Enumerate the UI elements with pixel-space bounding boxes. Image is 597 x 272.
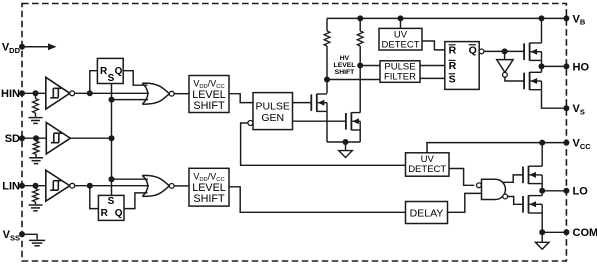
svg-text:DETECT: DETECT xyxy=(382,39,420,50)
node LIN/R latch xyxy=(87,183,93,189)
svg-text:PULSE: PULSE xyxy=(255,101,289,113)
resistor HIN pulldown xyxy=(33,99,39,114)
pin VB xyxy=(563,15,569,21)
svg-text:COM: COM xyxy=(573,227,597,239)
wire G3 to M3 gate xyxy=(503,175,524,182)
wire level shift to pulse gen xyxy=(229,94,253,103)
wire to R2 xyxy=(35,138,37,141)
wire G3 to M4 gate xyxy=(508,197,523,205)
wire SD buffer out xyxy=(70,137,111,139)
wire Q2 drain to pulse filter xyxy=(360,65,380,67)
block UV detect (low side) xyxy=(406,153,450,176)
ground LIN xyxy=(29,204,43,206)
pin HIN xyxy=(19,90,25,96)
wire pulse gen to Q1 gate xyxy=(293,102,312,104)
block UV detect (high side) xyxy=(379,28,422,50)
node Q2 drain tap xyxy=(357,63,363,69)
transistor M4 (LO pulldown) xyxy=(522,196,524,213)
wire to inverter xyxy=(504,51,506,59)
wire R3 to ground xyxy=(35,202,37,204)
block VDD/VCC level shift (low side) xyxy=(189,168,229,206)
wire SD to buffer xyxy=(22,137,46,139)
svg-text:R: R xyxy=(101,208,109,219)
nor gate G2 (low side) xyxy=(142,175,169,196)
resistor SD pulldown xyxy=(33,141,39,154)
wire VB rail xyxy=(327,17,566,19)
wire VDD arrow xyxy=(22,46,50,48)
wire pulse filter to latch R2 xyxy=(420,65,445,67)
wire pulse gen to Q2 gate xyxy=(293,120,347,122)
node VB/R5 xyxy=(357,15,363,21)
pin SD xyxy=(19,135,25,141)
wire LIN buffer out xyxy=(75,185,149,187)
svg-text:LO: LO xyxy=(573,186,589,198)
node Q1 drain tap xyxy=(324,77,330,83)
node LO xyxy=(539,188,545,194)
ground HV level shift (COM triangle) xyxy=(339,151,353,158)
block pulse generator xyxy=(253,93,293,130)
latch U2 (S R Q) xyxy=(98,195,124,220)
pin COM xyxy=(563,229,569,235)
wire Q1 drain to pulse filter xyxy=(327,79,380,81)
svg-text:LIN: LIN xyxy=(2,181,20,193)
wire HIN to buffer xyxy=(22,92,46,94)
wire COM to ground xyxy=(541,232,543,242)
wire M3 source to LO xyxy=(541,184,543,191)
transistor Q1 (HV level shift) xyxy=(310,94,312,111)
wire SD net vertical xyxy=(111,84,113,196)
pin VS xyxy=(563,105,569,111)
wire to HV ground xyxy=(345,142,347,151)
svg-text:Q: Q xyxy=(115,66,123,77)
wire LO xyxy=(542,190,566,192)
node HV sources xyxy=(343,139,349,145)
wire Q2 source xyxy=(359,130,361,142)
nor gate G1 (high side) xyxy=(142,83,169,104)
resistor LIN pulldown xyxy=(33,189,39,202)
wire HO xyxy=(542,65,567,67)
wire VB to UV detect 1 xyxy=(400,18,402,28)
wire latch2 Q to NOR2 xyxy=(124,193,148,209)
wire SD to NOR1 input xyxy=(112,99,149,101)
ground VSS xyxy=(29,239,45,241)
transistor Q2 (HV level shift) xyxy=(345,113,347,130)
wire M1 drain to VB xyxy=(541,18,543,43)
svg-text:DELAY: DELAY xyxy=(410,207,444,219)
wire VCC rail xyxy=(427,143,566,153)
node Qbar/inverter xyxy=(502,48,508,54)
wire M2 drain to HO xyxy=(541,66,543,72)
svg-text:R: R xyxy=(449,60,457,72)
svg-text:S: S xyxy=(449,74,456,86)
svg-text:LEVEL: LEVEL xyxy=(192,89,226,101)
ground HIN xyxy=(29,117,43,119)
node VCC/M3 xyxy=(539,140,545,146)
ground SD xyxy=(29,157,43,159)
node SD buffer out xyxy=(109,135,115,141)
pin LO xyxy=(563,188,569,194)
schmitt buffer SD xyxy=(46,123,70,154)
wire to latch2 R xyxy=(90,186,99,209)
block delay xyxy=(406,202,448,224)
svg-text:GEN: GEN xyxy=(261,112,284,124)
schmitt buffer LIN xyxy=(46,170,70,201)
wire LIN to buffer xyxy=(22,185,46,187)
svg-text:R: R xyxy=(449,45,457,57)
svg-text:LEVEL: LEVEL xyxy=(192,182,226,194)
svg-text:FILTER: FILTER xyxy=(384,72,416,83)
wire UV1 to latch R xyxy=(422,41,445,50)
svg-text:SHIFT: SHIFT xyxy=(335,69,355,76)
svg-text:DETECT: DETECT xyxy=(408,164,446,175)
node COM xyxy=(539,229,545,235)
pin VDD xyxy=(19,44,25,50)
ground COM triangle xyxy=(535,242,549,249)
wire M4 drain to LO xyxy=(541,191,543,196)
wire M4 source to COM xyxy=(541,213,543,232)
wire to latch1 R xyxy=(90,71,98,94)
block VDD/VCC level shift (high side) xyxy=(189,76,229,113)
node SD pulldown xyxy=(33,135,39,141)
wire G1 out xyxy=(174,93,189,95)
svg-text:LEVEL: LEVEL xyxy=(334,62,356,69)
wire to R3 xyxy=(35,186,37,189)
wire UV2 to AND gate xyxy=(449,169,474,186)
G3 inverted input bubble xyxy=(477,183,482,188)
wire R5 to Q2 drain xyxy=(359,46,361,113)
svg-text:SHIFT: SHIFT xyxy=(193,100,225,112)
wire inverter to M2 gate xyxy=(505,77,524,81)
pin HO xyxy=(563,63,569,69)
latch U3 (RRS Qbar) xyxy=(445,42,479,90)
svg-text:SHIFT: SHIFT xyxy=(193,193,225,205)
wire latch1 Q to NOR1 xyxy=(123,71,147,86)
wire level shift 2 to delay xyxy=(229,187,406,213)
node SD to NOR2 xyxy=(109,176,115,182)
svg-text:HIN: HIN xyxy=(1,88,20,100)
wire M2 source to VS xyxy=(542,90,567,109)
node SD to NOR1 xyxy=(109,97,115,103)
wire HIN buffer out xyxy=(75,92,149,94)
pin LIN xyxy=(19,183,25,189)
transistor M2 (HO pulldown) xyxy=(523,73,525,90)
node HO xyxy=(539,63,545,69)
node LIN pulldown xyxy=(33,183,39,189)
svg-text:Q: Q xyxy=(115,208,123,219)
transistor M3 (LO pullup) xyxy=(522,167,524,184)
and gate G3 (low side driver) xyxy=(482,179,506,199)
wire M3 drain to VCC xyxy=(541,143,543,167)
wire M1 source to HO xyxy=(541,60,543,66)
wire feedback from UV detect 2 xyxy=(241,123,406,165)
wire SD to NOR2 input xyxy=(112,178,149,180)
node VB/UV1 xyxy=(398,15,404,21)
wire pulse filter to latch S xyxy=(420,77,445,79)
inverter U4 xyxy=(497,60,513,73)
wire R1 to ground xyxy=(35,113,37,117)
wire VB to R4 xyxy=(326,18,328,31)
latch U1 (R S Q) xyxy=(97,58,123,83)
wire VB to R5 xyxy=(359,18,361,31)
wire to R1 xyxy=(35,93,37,98)
wire R4 to Q1 drain xyxy=(326,46,328,93)
svg-text:HO: HO xyxy=(573,61,590,73)
node VB/M1 xyxy=(539,15,545,21)
wire delay to AND gate xyxy=(448,193,482,212)
wire COM xyxy=(542,231,566,233)
schmitt buffer HIN xyxy=(46,77,70,109)
node HIN pulldown xyxy=(33,90,39,96)
node HIN/R latch xyxy=(87,90,93,96)
wire VSS to ground xyxy=(22,234,37,239)
wire G2 out xyxy=(174,185,189,187)
pin VSS xyxy=(19,231,25,237)
transistor M1 (HO pullup) xyxy=(523,43,525,60)
svg-text:S: S xyxy=(108,73,115,84)
resistor R5 (HV pullup B) xyxy=(357,31,363,46)
wire R2 to ground xyxy=(35,154,37,157)
wire Q1 source xyxy=(326,111,328,142)
pulse gen feedback input bubble xyxy=(248,121,253,126)
wire HV source rail xyxy=(327,141,360,143)
wire Qbar to M1 gate xyxy=(484,50,524,52)
svg-text:Q: Q xyxy=(469,45,477,57)
svg-text:SD: SD xyxy=(5,133,20,145)
block pulse filter xyxy=(380,61,420,83)
svg-text:HV: HV xyxy=(340,55,350,62)
G3 inverted output bubble xyxy=(503,194,508,199)
latch U3 output bubble xyxy=(479,49,484,54)
svg-text:S: S xyxy=(108,196,115,207)
pin VCC xyxy=(563,140,569,146)
resistor R4 (HV pullup A) xyxy=(324,31,330,46)
